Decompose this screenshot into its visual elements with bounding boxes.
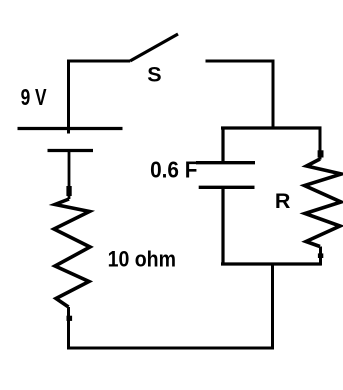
resistor 10 ohm zigzag <box>54 199 90 307</box>
wire: right vertical from switch wire down to parallel top rail <box>272 60 275 130</box>
arrowhead: current direction on left branch <box>66 186 71 196</box>
capacitor 0.6F top plate <box>196 161 255 164</box>
wire: battery lower lead down to resistor <box>68 151 71 199</box>
resistor R zigzag <box>305 159 342 247</box>
battery 9V long plate (+) <box>18 127 123 130</box>
arrowhead: current direction into resistor R <box>318 150 324 157</box>
wire: resistor R lower lead <box>319 247 322 266</box>
svg-text:R: R <box>275 189 291 213</box>
capacitor 0.6F bottom plate <box>199 186 255 189</box>
wire: capacitor branch upper lead <box>221 127 224 163</box>
battery 9V short plate (-) <box>48 149 94 152</box>
wire: resistor R branch upper lead <box>319 127 322 160</box>
svg-text:9 V: 9 V <box>21 84 47 110</box>
arrowhead: small blob below resistor 10 ohm <box>67 316 73 321</box>
wire: top-right horizontal from switch to right branch <box>206 60 274 63</box>
switch S blade <box>130 34 178 61</box>
svg-text:10 ohm: 10 ohm <box>108 247 176 272</box>
wire: bottom-left vertical and bottom horizontal and right feed up <box>69 263 273 348</box>
wire: left vertical from top corner down to battery <box>67 60 70 134</box>
wire: capacitor branch lower lead <box>221 188 224 266</box>
wire: parallel section bottom rail <box>221 262 322 265</box>
svg-text:0.6 F: 0.6 F <box>150 157 197 183</box>
arrowhead: small blob below resistor R <box>318 253 323 258</box>
wire: parallel section top rail <box>221 126 322 129</box>
svg-text:S: S <box>147 63 161 87</box>
wire: top-left horizontal from battery branch to switch <box>67 60 130 63</box>
